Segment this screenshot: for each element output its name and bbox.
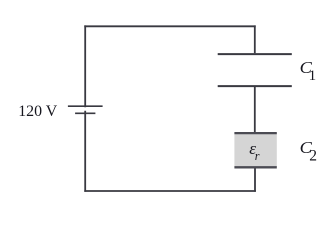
svg-text:1: 1 — [309, 68, 317, 84]
svg-text:120 V: 120 V — [18, 103, 58, 120]
svg-text:r: r — [255, 149, 260, 163]
svg-text:2: 2 — [309, 147, 317, 164]
